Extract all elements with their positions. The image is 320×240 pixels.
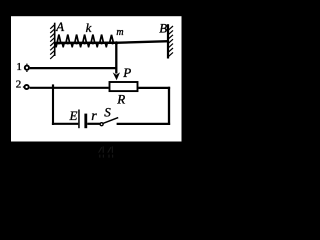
svg-text:B: B xyxy=(159,21,167,36)
rheostat R body xyxy=(110,82,138,91)
wire terminal 1 to slider line xyxy=(30,67,117,69)
spring coil knots xyxy=(58,42,114,45)
slider arrow P xyxy=(113,72,120,80)
wall A line xyxy=(54,23,56,56)
wire terminal 2 to rheostat xyxy=(30,87,109,89)
svg-text:R: R xyxy=(116,91,125,106)
spring k coils xyxy=(57,35,114,44)
rod line m to wall B xyxy=(115,41,169,43)
battery E long plate xyxy=(78,110,80,129)
svg-text:m: m xyxy=(116,27,123,38)
watermark glyphs xyxy=(99,146,113,157)
svg-text:r: r xyxy=(91,109,97,124)
svg-text:S: S xyxy=(104,104,111,119)
wire right vertical xyxy=(168,87,170,125)
battery E short plate xyxy=(84,114,87,129)
wire battery to switch xyxy=(87,123,100,125)
wire from m down to slider xyxy=(115,42,117,74)
spring end knot at m xyxy=(115,41,118,44)
svg-text:2: 2 xyxy=(16,79,21,91)
switch S pivot xyxy=(100,123,103,126)
svg-text:A: A xyxy=(55,19,64,34)
wire left vertical from junction xyxy=(52,88,54,125)
wire bottom right segment xyxy=(117,123,171,125)
spring lower loops xyxy=(55,42,108,48)
wall B line xyxy=(167,24,169,58)
svg-text:k: k xyxy=(86,20,92,35)
junction node xyxy=(52,84,54,89)
svg-text:P: P xyxy=(122,65,131,80)
terminal 2 xyxy=(23,85,29,89)
wall A hatching xyxy=(50,25,55,59)
wire bottom left segment xyxy=(52,123,78,125)
wall B hatching xyxy=(168,26,173,57)
wire rheostat right to corner xyxy=(139,87,171,89)
white drawing panel xyxy=(11,16,182,141)
svg-text:1: 1 xyxy=(16,61,22,73)
spring baseline from wall A to m xyxy=(55,42,117,45)
switch S blade xyxy=(103,118,118,124)
terminal 1 xyxy=(25,64,29,72)
svg-text:E: E xyxy=(69,108,78,123)
